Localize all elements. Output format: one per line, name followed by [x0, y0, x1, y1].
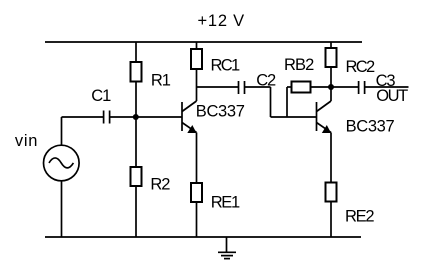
svg-text:R2: R2: [150, 175, 170, 193]
svg-text:RB2: RB2: [284, 56, 314, 74]
svg-text:OUT: OUT: [376, 87, 408, 105]
svg-text:RE2: RE2: [345, 208, 375, 226]
svg-text:RC1: RC1: [211, 56, 241, 74]
svg-text:BC337: BC337: [196, 102, 245, 120]
svg-text:C1: C1: [91, 87, 111, 105]
svg-text:+12 V: +12 V: [198, 12, 245, 30]
svg-text:C2: C2: [256, 72, 276, 90]
svg-text:BC337: BC337: [346, 118, 395, 136]
svg-text:RE1: RE1: [211, 193, 241, 211]
svg-text:RC2: RC2: [346, 58, 376, 76]
svg-text:vin: vin: [15, 132, 38, 150]
svg-text:R1: R1: [151, 72, 171, 90]
